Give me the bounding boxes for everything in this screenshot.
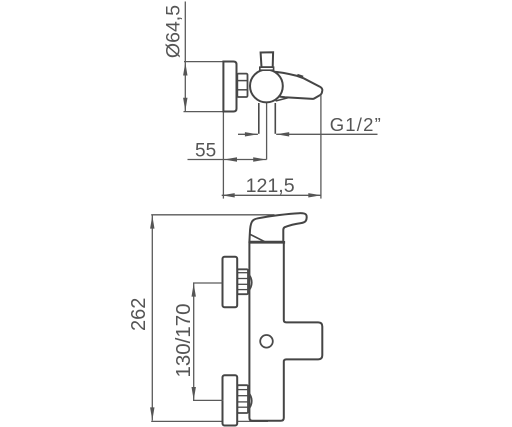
- dim 130/170 arrow up: [192, 283, 196, 296]
- wall extension line (left face of plate, down to dims): [222, 112, 224, 199]
- dim Ø64,5 arrow up: [183, 62, 187, 75]
- dim 130/170 arrow down: [192, 387, 196, 400]
- screw circle on body: [260, 335, 273, 348]
- dim 130/170 top extension line: [193, 282, 222, 284]
- top wall flange: [223, 257, 238, 307]
- dim 55 arrow left: [224, 157, 237, 161]
- handle inner fold line: [250, 234, 265, 242]
- dim Ø64,5 leader vertical line: [184, 2, 186, 62]
- handle collar: [260, 67, 274, 70]
- spout tip extension line: [320, 95, 322, 199]
- handle base bar: [249, 241, 285, 244]
- body with spout tab (front): [249, 243, 322, 421]
- spout under edge line: [276, 98, 289, 101]
- bottom wall flange: [223, 375, 238, 425]
- dim 262 dimension line: [151, 215, 153, 420]
- dim 121,5 arrow right: [308, 193, 321, 197]
- dim 262 bottom extension line: [151, 420, 268, 422]
- dim Ø64,5 arrow down: [183, 98, 187, 111]
- dim 130/170 bottom extension line: [193, 399, 224, 401]
- pipe outlet below body: [258, 103, 260, 134]
- spout (top view, pointing right): [271, 72, 322, 99]
- top supply hex: [237, 269, 248, 294]
- dim Ø64,5 bottom extension line: [184, 111, 225, 113]
- hex connector (between plate and body): [237, 74, 247, 97]
- bottom supply dome arc: [248, 392, 252, 411]
- dim G1/2" right arrow line: [276, 133, 377, 135]
- dim 262 arrow down: [150, 407, 154, 420]
- dim 121,5 arrow left: [222, 193, 235, 197]
- dim 130/170 dimension line: [193, 283, 195, 400]
- spout top step detail: [297, 75, 303, 77]
- dim 55 arrow right: [253, 157, 266, 161]
- wall plate (escutcheon side view): [223, 62, 236, 112]
- bottom supply hex: [237, 385, 248, 413]
- dim 121,5 line: [222, 194, 322, 196]
- svg-text:G1/2”: G1/2”: [330, 114, 382, 135]
- dim 262 top extension line: [151, 214, 274, 216]
- dim 262 arrow up: [150, 215, 154, 228]
- svg-text:121,5: 121,5: [246, 175, 295, 197]
- svg-text:Ø64,5: Ø64,5: [162, 5, 184, 58]
- svg-text:130/170: 130/170: [172, 303, 195, 377]
- handle knob (top view): [261, 52, 274, 67]
- dim Ø64,5 dimension line: [184, 62, 186, 111]
- dim G1/2" left arrow line: [238, 133, 258, 135]
- svg-text:262: 262: [128, 298, 150, 331]
- handle lever (side view): [249, 213, 306, 242]
- pipe centerline extension: [266, 103, 268, 160]
- dim Ø64,5 top extension line: [184, 61, 224, 63]
- mixer body (circle): [250, 70, 283, 103]
- top supply dome arc: [248, 273, 252, 292]
- svg-text:55: 55: [195, 140, 216, 161]
- dim 55 line: [188, 159, 267, 161]
